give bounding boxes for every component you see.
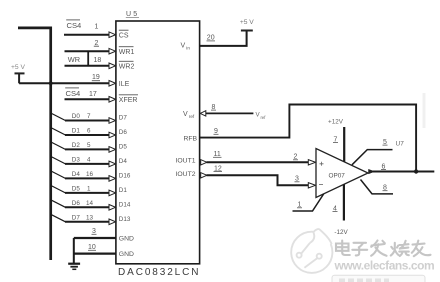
wire D0 bus entry <box>51 113 66 121</box>
svg-text:D1: D1 <box>119 187 128 194</box>
wire D6 <box>65 206 110 208</box>
svg-text:CS: CS <box>119 32 129 39</box>
wire CS4 to pin 17 (XFER) <box>65 98 110 100</box>
char 烧 <box>391 241 409 256</box>
wire +5V to ILE pin 19 <box>19 82 110 84</box>
junction bus/ILE <box>49 81 53 85</box>
wire pin 20 to +5V <box>200 31 247 46</box>
wire pin 11 IOUT1 to op-amp pin 2 <box>207 161 309 163</box>
wire D5 bus entry <box>51 185 66 193</box>
svg-text:IOUT2: IOUT2 <box>176 171 196 178</box>
svg-text:-12V: -12V <box>334 229 348 236</box>
svg-text:in: in <box>186 45 190 50</box>
wire D1 <box>65 134 110 136</box>
char 友 <box>412 241 431 257</box>
op-amp - input mark <box>319 184 323 186</box>
wire D6 bus entry <box>51 200 66 208</box>
svg-text:19: 19 <box>92 74 100 81</box>
wire D4 <box>65 177 110 179</box>
op-amp U1 OP07 triangle <box>316 149 368 198</box>
char 子 <box>352 243 367 256</box>
watermark logo circle <box>291 229 332 273</box>
wire WR2 to pin 18 with WR net label <box>65 65 110 67</box>
svg-text:D16: D16 <box>119 173 131 180</box>
+5V supply (right) <box>241 30 253 32</box>
op-amp pin 1 stub <box>293 194 324 211</box>
ground <box>68 264 80 270</box>
char 发 <box>371 241 386 256</box>
svg-text:DAC0832LCN: DAC0832LCN <box>118 267 200 278</box>
char 电 <box>336 241 350 256</box>
svg-text:IOUT1: IOUT1 <box>176 158 196 165</box>
svg-text:4: 4 <box>87 157 91 164</box>
op-amp pin 8 stub <box>361 180 394 194</box>
svg-text:D4: D4 <box>119 158 128 165</box>
watermark bottom box <box>332 275 425 282</box>
wire pin 8 Vref <box>206 112 254 114</box>
watermark title 电子发烧友 <box>336 241 431 257</box>
wire D4 bus entry <box>51 171 66 179</box>
svg-text:D2: D2 <box>72 142 81 149</box>
-12V supply stem pin 4 <box>343 185 345 221</box>
svg-text:1: 1 <box>95 23 99 30</box>
svg-text:D14: D14 <box>119 202 131 209</box>
DAC U5 chip box <box>116 21 200 264</box>
svg-text:CS4: CS4 <box>66 89 81 98</box>
svg-text:7: 7 <box>87 113 91 120</box>
wire D3 <box>65 163 110 165</box>
svg-text:CS4: CS4 <box>67 21 82 30</box>
svg-text:D4: D4 <box>72 171 81 178</box>
svg-text:U5: U5 <box>126 11 139 18</box>
data net labels <box>72 113 94 221</box>
svg-text:6: 6 <box>87 128 91 135</box>
svg-text:U7: U7 <box>396 141 405 148</box>
svg-text:ILE: ILE <box>119 81 130 88</box>
svg-text:D5: D5 <box>72 186 81 193</box>
svg-text:GND: GND <box>119 251 134 258</box>
junction feedback/output <box>414 169 418 173</box>
wire D1 bus entry <box>51 128 66 136</box>
svg-text:D6: D6 <box>72 200 81 207</box>
svg-text:WR2: WR2 <box>119 63 135 70</box>
wire pin 9 RFB feedback loop <box>200 105 417 172</box>
svg-text:D5: D5 <box>119 144 128 151</box>
wire D0 <box>65 120 110 122</box>
svg-text:+5 V: +5 V <box>11 64 25 71</box>
chip inner pin names <box>119 30 198 258</box>
op-amp + input mark <box>320 162 324 166</box>
GND wires pins 3 and 10 <box>74 237 116 239</box>
svg-text:OP07: OP07 <box>329 173 346 180</box>
wire D3 bus entry <box>51 156 66 164</box>
svg-text:WR1: WR1 <box>119 49 135 56</box>
svg-text:ref: ref <box>189 114 195 119</box>
svg-text:16: 16 <box>86 171 94 178</box>
svg-text:D7: D7 <box>72 215 81 222</box>
watermark faint right smudge <box>423 93 426 128</box>
svg-text:XFER: XFER <box>119 97 138 104</box>
svg-text:5: 5 <box>87 142 91 149</box>
data bus <box>18 28 51 260</box>
svg-text:D3: D3 <box>72 157 81 164</box>
svg-text:www.elecfans.com: www.elecfans.com <box>334 258 435 272</box>
svg-text:D0: D0 <box>72 113 81 120</box>
svg-text:1: 1 <box>87 186 91 193</box>
svg-text:18: 18 <box>94 57 102 64</box>
svg-text:V: V <box>181 42 186 49</box>
op-amp pin 5 stub <box>352 150 393 165</box>
svg-text:14: 14 <box>86 200 94 207</box>
chip left pin arrows <box>109 32 116 225</box>
svg-text:D1: D1 <box>72 128 81 135</box>
wire D7 bus entry <box>51 214 66 222</box>
wire D2 <box>65 148 110 150</box>
svg-text:V: V <box>183 111 188 118</box>
svg-text:WR: WR <box>68 55 80 64</box>
svg-text:RFB: RFB <box>184 135 198 142</box>
svg-text:D6: D6 <box>119 129 128 136</box>
svg-text:GND: GND <box>119 236 134 243</box>
svg-text:13: 13 <box>86 215 94 222</box>
svg-text:D7: D7 <box>119 115 128 122</box>
op-amp output pin 6 wire <box>369 169 375 174</box>
wire D7 <box>65 221 110 223</box>
wire CS4 to pin 1 <box>64 34 110 36</box>
svg-text:+12V: +12V <box>328 118 344 125</box>
svg-text:D13: D13 <box>119 216 131 223</box>
svg-text:17: 17 <box>89 91 97 98</box>
svg-text:ref: ref <box>261 115 267 120</box>
wire D5 <box>65 192 110 194</box>
wire pin 12 IOUT2 to op-amp pin 3 <box>207 175 309 185</box>
svg-text:+5 V: +5 V <box>240 19 254 26</box>
wire WR1 to pin 2 <box>65 50 110 52</box>
wire D2 bus entry <box>51 142 66 150</box>
